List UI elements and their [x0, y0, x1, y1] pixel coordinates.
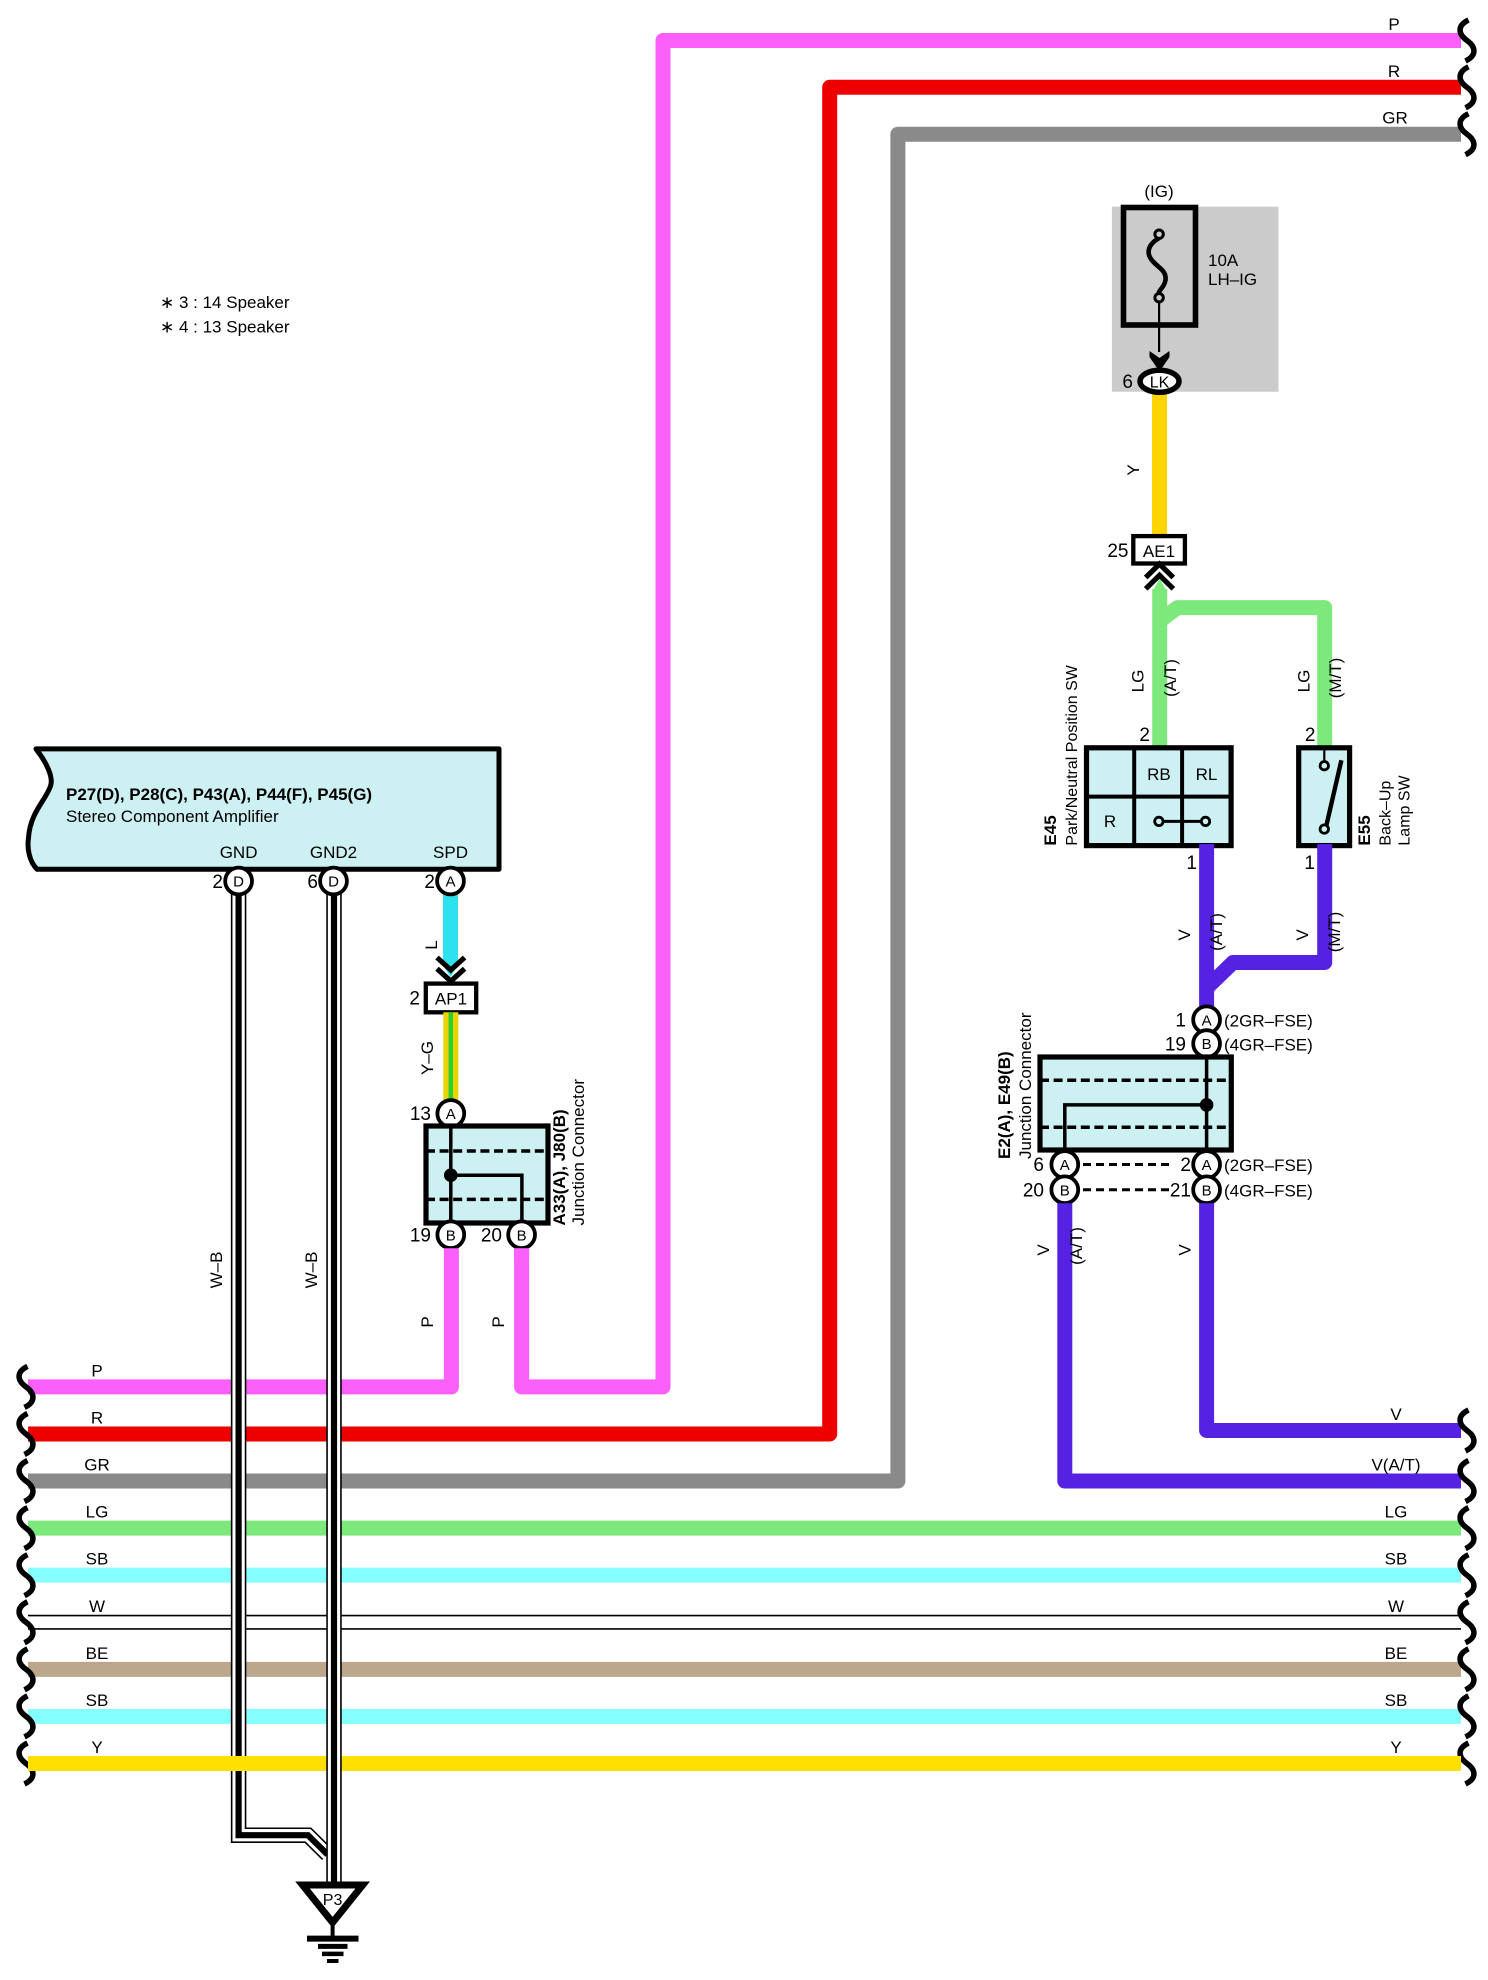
svg-text:B: B — [517, 1227, 527, 1244]
svg-text:20: 20 — [1023, 1180, 1044, 1201]
svg-text:V: V — [1176, 1244, 1195, 1256]
wire P from 19 B to left edge — [28, 1248, 451, 1387]
svg-text:B: B — [1202, 1182, 1212, 1199]
svg-text:Y–G: Y–G — [418, 1041, 437, 1075]
stereo component amplifier P27(D), P28(C), P43(A), P44(F), P45(G) — [28, 749, 499, 869]
svg-text:20: 20 — [481, 1226, 502, 1247]
svg-text:BE: BE — [86, 1644, 109, 1663]
svg-text:10A: 10A — [1208, 251, 1239, 270]
wire P top + vertical — [522, 41, 1461, 1387]
svg-text:LK: LK — [1150, 374, 1170, 391]
svg-text:19: 19 — [410, 1226, 431, 1247]
wire LG row — [28, 1521, 1461, 1536]
svg-text:V(A/T): V(A/T) — [1371, 1456, 1420, 1475]
svg-text:2: 2 — [212, 872, 223, 893]
squiggle P left — [19, 1366, 33, 1407]
wire P from 20 B stub — [514, 1248, 529, 1260]
node 21 B (4GR-FSE) — [1193, 1176, 1220, 1203]
squiggle Y right — [1460, 1743, 1474, 1784]
svg-text:E55: E55 — [1355, 815, 1374, 845]
svg-text:(A/T): (A/T) — [1207, 913, 1226, 951]
svg-text:LG: LG — [1385, 1503, 1408, 1522]
wire L cyan — [443, 894, 458, 967]
svg-text:AP1: AP1 — [435, 990, 467, 1009]
svg-text:6: 6 — [1033, 1155, 1044, 1176]
svg-text:R: R — [1388, 62, 1400, 81]
svg-text:(4GR–FSE): (4GR–FSE) — [1224, 1036, 1313, 1055]
svg-text:D: D — [328, 874, 339, 891]
svg-text:R: R — [1104, 812, 1116, 831]
svg-text:Junction Connector: Junction Connector — [569, 1079, 588, 1226]
wire V(A/T) from 20 B to right edge — [1065, 1203, 1461, 1481]
svg-text:V: V — [1293, 929, 1312, 941]
squiggle W left — [19, 1602, 33, 1643]
node 19 B (4GR-FSE) — [1193, 1030, 1220, 1057]
connector 2 AP1 — [426, 984, 476, 1013]
node 20 B — [508, 1221, 535, 1248]
connector 6 LK oval — [1140, 370, 1179, 392]
svg-text:V: V — [1175, 929, 1194, 941]
svg-text:A: A — [1060, 1157, 1070, 1174]
svg-text:GR: GR — [1382, 109, 1408, 128]
node 19 B — [437, 1221, 464, 1248]
svg-text:2: 2 — [424, 872, 435, 893]
svg-text:RB: RB — [1147, 765, 1171, 784]
svg-text:A: A — [446, 1106, 456, 1123]
svg-text:SB: SB — [1385, 1550, 1408, 1569]
switch E55 Back-Up Lamp SW — [1299, 748, 1350, 846]
svg-text:B: B — [1202, 1036, 1212, 1053]
squiggle LG left — [19, 1508, 33, 1549]
wire LG branch to E55 — [1160, 608, 1325, 749]
svg-text:(M/T): (M/T) — [1325, 912, 1344, 953]
squiggle P top — [1460, 20, 1474, 61]
squiggle R top — [1460, 67, 1474, 108]
svg-text:∗ 4 : 13 Speaker: ∗ 4 : 13 Speaker — [160, 318, 290, 337]
svg-text:(A/T): (A/T) — [1161, 659, 1180, 697]
wire Y (yellow) fuse to AE1 — [1152, 388, 1167, 537]
squiggle BE right — [1460, 1649, 1474, 1690]
svg-text:B: B — [446, 1227, 456, 1244]
svg-text:P: P — [489, 1316, 508, 1327]
wire W-B from GND — [239, 894, 328, 1855]
svg-text:LG: LG — [1295, 670, 1314, 693]
wire V from 21 B to right edge — [1207, 1203, 1461, 1430]
fuse 10A LH-IG (IG) with panel — [1112, 207, 1279, 392]
svg-text:D: D — [233, 874, 244, 891]
wire GR top + vertical + bottom — [28, 134, 1461, 1481]
svg-text:(A/T): (A/T) — [1067, 1227, 1086, 1265]
svg-text:1: 1 — [1304, 853, 1315, 874]
svg-text:P: P — [91, 1361, 102, 1380]
squiggle V(A/T) right — [1460, 1461, 1474, 1502]
svg-text:GND2: GND2 — [310, 843, 357, 862]
svg-text:6: 6 — [307, 872, 318, 893]
wire W row — [28, 1615, 1461, 1617]
connector 25 AE1 — [1133, 536, 1185, 563]
wire Y row — [28, 1756, 1461, 1771]
svg-text:(2GR–FSE): (2GR–FSE) — [1224, 1012, 1313, 1031]
svg-text:Junction Connector: Junction Connector — [1016, 1012, 1035, 1159]
svg-text:19: 19 — [1165, 1035, 1186, 1056]
dashes between A-A — [1083, 1163, 1172, 1166]
svg-text:Park/Neutral Position SW: Park/Neutral Position SW — [1064, 664, 1081, 845]
svg-text:GR: GR — [84, 1456, 110, 1475]
wire BE row — [28, 1662, 1461, 1677]
chevrons above AP1 — [437, 958, 465, 971]
node 20 B — [1051, 1176, 1078, 1203]
svg-text:6: 6 — [1122, 372, 1133, 393]
svg-text:(IG): (IG) — [1144, 182, 1173, 201]
chevrons below AE1 — [1146, 564, 1174, 578]
svg-text:2: 2 — [1305, 725, 1316, 746]
svg-text:1: 1 — [1186, 853, 1197, 874]
svg-text:Y: Y — [91, 1738, 102, 1757]
pin 2 A SPD — [437, 868, 464, 895]
node 6 A — [1051, 1151, 1078, 1178]
wire W-B from GND2 — [326, 894, 342, 1888]
svg-text:GND: GND — [220, 843, 258, 862]
ground P3 — [303, 1885, 363, 1923]
svg-text:BE: BE — [1385, 1644, 1408, 1663]
svg-text:V: V — [1390, 1405, 1402, 1424]
svg-text:(2GR–FSE): (2GR–FSE) — [1224, 1156, 1313, 1175]
svg-text:Lamp SW: Lamp SW — [1397, 774, 1414, 845]
svg-text:Back–Up: Back–Up — [1378, 781, 1395, 846]
squiggle SB right — [1460, 1696, 1474, 1737]
svg-text:W–B: W–B — [302, 1252, 321, 1289]
svg-text:SB: SB — [86, 1550, 109, 1569]
svg-text:SB: SB — [1385, 1691, 1408, 1710]
squiggle V right — [1460, 1410, 1474, 1451]
svg-text:(4GR–FSE): (4GR–FSE) — [1224, 1181, 1313, 1200]
svg-text:2: 2 — [1139, 725, 1150, 746]
svg-text:21: 21 — [1170, 1180, 1191, 1201]
svg-text:1: 1 — [1175, 1011, 1186, 1032]
svg-text:∗ 3 : 14 Speaker: ∗ 3 : 14 Speaker — [160, 293, 290, 312]
svg-text:2: 2 — [1180, 1155, 1191, 1176]
svg-text:(M/T): (M/T) — [1326, 658, 1345, 699]
squiggle SB right — [1460, 1555, 1474, 1596]
svg-text:2: 2 — [409, 989, 420, 1010]
node 2 A (2GR-FSE) — [1193, 1151, 1220, 1178]
svg-text:A: A — [1202, 1012, 1212, 1029]
switch E45 Park/Neutral Position SW — [1087, 748, 1232, 846]
svg-text:W–B: W–B — [207, 1252, 226, 1289]
svg-text:13: 13 — [410, 1104, 431, 1125]
pin 6 D GND2 — [320, 868, 347, 895]
wire SB row — [28, 1568, 1461, 1583]
wire V from E55 pin1 — [1207, 844, 1325, 988]
svg-text:RL: RL — [1196, 765, 1218, 784]
svg-text:P: P — [418, 1316, 437, 1327]
dashes between B-B — [1083, 1188, 1172, 1191]
svg-text:SB: SB — [86, 1691, 109, 1710]
svg-text:E45: E45 — [1041, 815, 1060, 845]
squiggle SB left — [19, 1555, 33, 1596]
svg-text:AE1: AE1 — [1143, 542, 1175, 561]
junction connector A33(A), J80(B) — [426, 1126, 548, 1223]
node 13 A — [437, 1100, 464, 1127]
svg-text:A: A — [445, 874, 455, 891]
svg-text:L: L — [422, 940, 441, 949]
wire V from E45 pin1 — [1199, 844, 1214, 1007]
svg-text:E2(A), E49(B): E2(A), E49(B) — [995, 1051, 1014, 1159]
svg-text:V: V — [1034, 1244, 1053, 1256]
svg-text:P: P — [1388, 15, 1399, 34]
squiggle BE left — [19, 1649, 33, 1690]
svg-text:A33(A), J80(B): A33(A), J80(B) — [550, 1109, 569, 1225]
svg-text:A: A — [1202, 1157, 1212, 1174]
svg-text:R: R — [91, 1408, 103, 1427]
wire R top + vertical + bottom — [28, 87, 1461, 1434]
squiggle SB left — [19, 1696, 33, 1737]
svg-text:LG: LG — [86, 1503, 109, 1522]
svg-text:P27(D), P28(C), P43(A), P44(F): P27(D), P28(C), P43(A), P44(F), P45(G) — [66, 785, 372, 804]
svg-text:Y: Y — [1124, 464, 1143, 475]
pin 2 D GND — [225, 868, 252, 895]
svg-text:W: W — [1388, 1597, 1404, 1616]
squiggle GR top — [1460, 114, 1474, 155]
squiggle W right — [1460, 1602, 1474, 1643]
svg-text:B: B — [1060, 1182, 1070, 1199]
svg-text:SPD: SPD — [433, 843, 468, 862]
squiggle GR left — [19, 1461, 33, 1502]
squiggle R left — [19, 1413, 33, 1454]
svg-text:LG: LG — [1129, 670, 1148, 693]
svg-text:25: 25 — [1107, 541, 1128, 562]
svg-text:W: W — [89, 1597, 105, 1616]
squiggle LG right — [1460, 1508, 1474, 1549]
svg-text:Y: Y — [1390, 1738, 1401, 1757]
wire LG vertical to E45 — [1153, 579, 1167, 591]
svg-text:P3: P3 — [323, 1892, 343, 1909]
svg-text:Stereo Component Amplifier: Stereo Component Amplifier — [66, 807, 279, 826]
wire Y-G — [443, 1012, 458, 1103]
squiggle Y left — [19, 1743, 33, 1784]
node 1 A (2GR-FSE) — [1193, 1006, 1220, 1033]
wire SB2 row — [28, 1709, 1461, 1724]
junction connector E2(A), E49(B) — [1040, 1057, 1231, 1150]
svg-text:LH–IG: LH–IG — [1208, 270, 1257, 289]
